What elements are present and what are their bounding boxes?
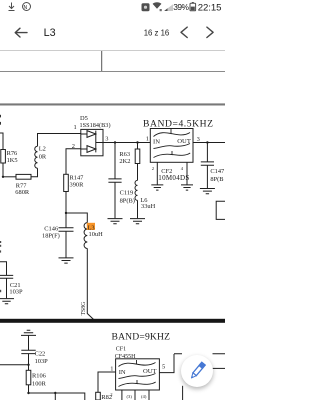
svg-text:103P: 103P [35, 358, 49, 365]
title block bottom border (prev page) [0, 71, 225, 73]
svg-text:10M04DS: 10M04DS [158, 174, 189, 182]
ground CF2 pin2 [151, 185, 163, 190]
capacitor C146 [59, 213, 74, 258]
svg-text:CF455H: CF455H [115, 354, 136, 360]
svg-text:L3: L3 [88, 224, 95, 231]
CF1 pin wires bottom [122, 390, 149, 400]
node C22/R106 [27, 364, 29, 366]
fab pencil icon [181, 354, 214, 387]
svg-text:103P: 103P [9, 289, 23, 296]
connector box clipped at right edge [216, 201, 225, 219]
CF1 wave 1 [119, 363, 156, 367]
wire bottom bus [29, 393, 85, 400]
CF1 wave 2 [119, 374, 156, 379]
resistor R82 [96, 392, 101, 400]
svg-text:3: 3 [105, 136, 108, 143]
CF2 wave 3 [154, 153, 191, 158]
wire junction to L3 [66, 213, 87, 223]
node R76/R77 junction [2, 176, 4, 178]
ground CF2 pin4 [181, 185, 193, 190]
node C146/L3 junction [65, 212, 67, 214]
main wire node C119 [114, 141, 116, 143]
svg-text:TS8G: TS8G [81, 302, 87, 316]
inductor L2 [35, 146, 38, 168]
wire L2 top to D5 pin1 [38, 134, 81, 147]
resistor R77 [16, 174, 31, 179]
CF2 wave 1 [154, 133, 191, 137]
ground C22 (inverted) [21, 330, 36, 350]
svg-text:2: 2 [110, 392, 113, 397]
wire R77 to L2 bottom [31, 168, 38, 177]
fab button [181, 355, 213, 387]
capacitor C22 [21, 350, 35, 365]
back arrow [15, 27, 213, 37]
svg-text:R106: R106 [32, 373, 46, 380]
svg-text:100R: 100R [32, 381, 47, 388]
ground C21 [0, 299, 14, 304]
svg-text:CF1: CF1 [116, 346, 126, 352]
ground C146 [59, 258, 74, 263]
svg-text:1: 1 [74, 124, 77, 131]
svg-text:0R: 0R [39, 154, 47, 161]
wire right of fab [211, 367, 225, 369]
node bus mid [54, 392, 56, 394]
svg-text:1: 1 [110, 365, 113, 372]
wire below fab [182, 386, 184, 400]
wire D5 pin3 out [96, 142, 151, 144]
svg-text:L2: L2 [39, 146, 46, 153]
node bus left [27, 392, 29, 394]
capacitor C21 [0, 262, 13, 299]
capacitor C119 [108, 143, 121, 219]
capacitor C147 [201, 143, 214, 189]
node C147 [206, 141, 208, 143]
ground C119 [108, 219, 123, 224]
ground L6 [130, 219, 145, 224]
svg-text:C147: C147 [210, 168, 225, 175]
ground C147 [200, 189, 215, 194]
svg-text:18P(F): 18P(F) [42, 233, 60, 240]
clipped text left edge 2 [0, 245, 1, 247]
svg-text:1K5: 1K5 [7, 157, 18, 164]
svg-text:3: 3 [197, 136, 200, 143]
svg-text:IN: IN [119, 369, 126, 376]
svg-text:5: 5 [162, 364, 165, 371]
wire R63 to L6 [137, 164, 139, 181]
wire junction to R77 [3, 176, 16, 178]
clipped text left edge top 1 [0, 115, 1, 118]
svg-text:2: 2 [72, 143, 75, 150]
clipped text left edge 3 [0, 250, 1, 252]
screenshot icon [142, 3, 150, 11]
svg-text:2K2: 2K2 [119, 158, 130, 165]
diode D5 lower element [81, 146, 96, 153]
resistor R106 [28, 365, 30, 371]
wire CF2 out [193, 142, 225, 144]
diode D5 body box [81, 129, 103, 155]
wire L3 to TS8G net [87, 248, 94, 319]
wire R76 bottom [2, 163, 4, 177]
main wire node R63 [136, 141, 138, 143]
svg-text:C22: C22 [35, 350, 46, 357]
svg-text:680R: 680R [15, 189, 30, 196]
svg-text:8P(B: 8P(B [210, 176, 223, 183]
wire from left edge to C22 [0, 364, 29, 366]
wire L6 to ground [137, 200, 139, 218]
resistor R147 [64, 174, 69, 191]
wire R147 to junction [65, 192, 67, 214]
volte icon [23, 3, 31, 11]
CF2 pin2 wire [156, 162, 158, 184]
page top border [0, 103, 225, 105]
filter CF1 box [116, 359, 160, 390]
wire R76 top stub to left edge [0, 133, 3, 150]
svg-text:(3): (3) [127, 394, 133, 399]
wire CF1 in [98, 372, 116, 392]
svg-text:2: 2 [152, 166, 155, 171]
signal triangle [164, 4, 173, 11]
inductor L6 [135, 180, 138, 200]
CF2 pin4 wire [186, 162, 188, 184]
resistor R76 [1, 150, 6, 164]
svg-text:OUT: OUT [143, 368, 157, 375]
svg-text:10uH: 10uH [89, 231, 104, 238]
wifi icon [153, 2, 162, 9]
svg-text:OUT: OUT [177, 138, 191, 145]
CF2 wave 2 [154, 144, 191, 149]
svg-text:390R: 390R [70, 182, 85, 189]
wire bus mid drop [54, 393, 56, 400]
page separator thick line [0, 319, 225, 323]
svg-text:4: 4 [181, 166, 184, 171]
inductor L3 [84, 223, 87, 249]
wire R106 to bus [28, 385, 30, 393]
svg-text:1: 1 [146, 135, 149, 142]
title block vertical divider (prev page) [101, 51, 103, 72]
filter CF2 box [150, 129, 193, 163]
svg-text:BAND=9KHZ: BAND=9KHZ [112, 332, 171, 343]
clipped text left edge 4 [0, 290, 1, 292]
schematic svg [0, 0, 225, 400]
wire CF1 out [159, 354, 225, 373]
clipped text left edge top 2 [0, 122, 1, 125]
next chevron [207, 27, 213, 37]
battery [190, 3, 196, 11]
prev chevron [181, 27, 187, 37]
CF1 wave 3 [119, 382, 156, 387]
svg-text:R147: R147 [70, 174, 85, 181]
svg-text:C119: C119 [120, 189, 134, 196]
svg-text:C146: C146 [44, 225, 58, 232]
wire D5 pin2 from R147 column [66, 149, 81, 175]
resistor R63 [137, 143, 139, 150]
svg-text:8P(B): 8P(B) [120, 197, 135, 204]
toolbar bottom border [0, 50, 225, 51]
download icon [9, 3, 15, 11]
highlight L3 [87, 223, 95, 230]
diode D5 upper element [81, 131, 96, 153]
svg-text:1SS184(B3): 1SS184(B3) [80, 122, 111, 129]
status bar + toolbar (sans) [0, 0, 225, 52]
clipped text left edge 1 [0, 241, 1, 243]
svg-text:(4): (4) [141, 394, 147, 399]
svg-text:BAND=4.5KHZ: BAND=4.5KHZ [143, 118, 213, 129]
svg-text:IN: IN [153, 138, 160, 145]
svg-text:33uH: 33uH [141, 203, 156, 210]
